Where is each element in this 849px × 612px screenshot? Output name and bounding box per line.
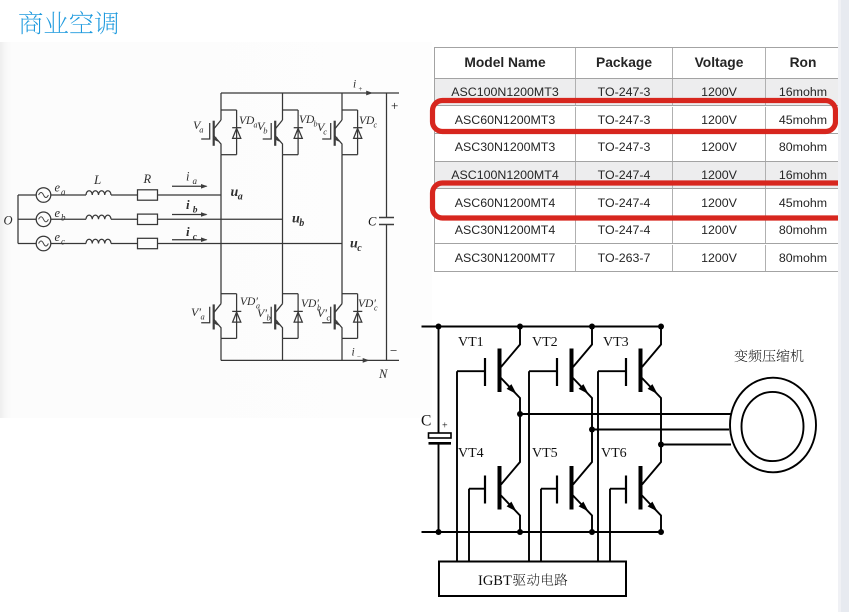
svg-text:+: + [442,421,448,432]
wire gate drive x=598 [597,371,599,561]
svg-text:c: c [374,121,378,130]
IGBT V'_b [263,304,283,339]
inductor L (phase b) [86,215,111,219]
left schematic background panel [0,42,432,418]
wire device box bottom [283,154,299,156]
svg-text:N: N [378,367,388,381]
node phase C [658,442,664,448]
wire cap leads [438,327,440,533]
junction dot top rail x=592 [589,324,595,330]
svg-text:c: c [374,304,378,313]
inductor L (phase c) [86,239,111,243]
wire gate drive x=610 [609,489,611,562]
motor compressor inner [742,392,804,461]
svg-text:VT6: VT6 [601,446,627,461]
transistor VT4 [469,414,520,532]
wire leg top connector [220,93,222,120]
resistor R (phase a) [138,190,158,200]
svg-text:c: c [357,243,362,254]
label 驱动电路 [513,573,567,586]
inductor L (phase a) [86,191,111,195]
IGBT drive box [439,562,626,597]
svg-text:b: b [193,206,198,216]
svg-text:i: i [352,347,355,359]
wire DC+ rail [221,92,399,94]
svg-text:i: i [186,197,190,212]
svg-text:VT3: VT3 [603,335,629,350]
spec table [434,47,840,272]
svg-text:i: i [186,224,190,239]
svg-text:c: c [61,237,65,247]
diode VD'_c [353,294,362,339]
wire phase line [18,218,283,220]
diode VD'_b [294,294,303,339]
wire leg to bottom rail [282,338,284,360]
AC source e_a [36,188,51,203]
IGBT V_a [201,120,221,155]
junction dot bottom rail x=520 [517,529,523,535]
svg-text:−: − [390,343,397,358]
IGBT V_b [263,120,283,155]
svg-text:c: c [193,233,198,243]
diode VD_b [294,110,303,155]
svg-text:VT5: VT5 [532,446,558,461]
svg-text:R: R [143,172,152,186]
resistor R (phase b) [138,214,158,224]
IGBT V'_c [322,304,342,339]
junction dot top rail x=520 [517,324,523,330]
junction dot bottom rail x=438.5 [436,529,442,535]
svg-text:i: i [186,170,190,184]
wire device box bottom [342,337,358,339]
wire bridge leg x=282.5 [282,155,284,304]
transistor VT3 [598,327,661,445]
svg-text:IGBT: IGBT [478,573,512,589]
wire leg to bottom rail [341,338,343,360]
IGBT V'_a [201,304,221,339]
svg-text:O: O [4,214,13,228]
wire phase line [18,194,221,196]
transistor VT2 [529,327,592,430]
transistor VT6 [610,445,661,533]
svg-text:VT2: VT2 [532,335,558,350]
wire device box top [221,109,237,111]
svg-text:C: C [421,413,431,430]
svg-text:VT1: VT1 [458,335,484,350]
diode VD'_a [232,294,241,339]
wire left bus [17,195,19,244]
capacitor C [379,218,394,225]
wire leg top connector [341,93,343,120]
wire device box bottom [221,154,237,156]
slide title 商业空调 [19,11,118,35]
svg-text:c: c [323,127,327,137]
wire device box top [221,293,237,295]
svg-text:e: e [55,230,61,244]
highlight box row ASC60N1200MT3 [433,101,836,132]
highlight box row ASC60N1200MT4 [433,183,848,218]
svg-text:C: C [368,215,377,229]
wire gate drive x=529 [528,371,530,561]
wire gate drive x=457 [456,371,458,561]
svg-text:VT4: VT4 [458,446,484,461]
wire DC bus bottom [422,531,662,533]
wire device box top [283,109,299,111]
wire phase line [18,243,342,245]
svg-text:+: + [358,85,363,93]
junction dot bottom rail x=661 [658,529,664,535]
right page-edge strip [838,0,849,612]
wire gate drive x=469 [468,489,470,562]
wire cap branch [386,93,388,360]
svg-text:a: a [199,125,203,135]
svg-text:−: − [357,353,362,361]
diode VD_a [232,110,241,155]
page edge strip [838,0,849,612]
wire leg to bottom rail [220,338,222,360]
capacitor C bottom plate [429,442,452,445]
wire device box top [342,109,358,111]
wire bridge leg x=342 [341,155,343,304]
wire device box bottom [283,337,299,339]
svg-text:e: e [55,206,61,220]
IGBT V_c [322,120,342,155]
junction dot top rail x=438.5 [436,324,442,330]
resistor R (phase c) [138,238,158,248]
current arrow i_b [172,214,207,216]
svg-text:i: i [353,79,356,91]
svg-text:b: b [299,218,304,229]
current arrow i_a [172,185,207,187]
junction dot top rail x=661 [658,324,664,330]
wire leg top connector [282,93,284,120]
label 变频压缩机 [735,349,804,362]
svg-text:b: b [61,213,66,223]
motor compressor outer [730,378,816,473]
svg-text:b: b [263,126,267,136]
AC source e_b [36,212,51,227]
wire DC bus top [422,326,662,328]
svg-text:a: a [238,192,243,203]
wire DC- rail [221,359,399,361]
wire device box bottom [342,154,358,156]
svg-text:b: b [267,313,271,323]
junction dot bottom rail x=592 [589,529,595,535]
wire gate drive x=541 [540,489,542,562]
wire bridge leg x=221 [220,155,222,304]
transistor VT1 [457,327,520,415]
node phase A [517,411,523,417]
svg-text:a: a [193,176,198,186]
svg-text:e: e [55,181,61,195]
svg-text:L: L [93,172,101,187]
node phase B [589,427,595,433]
svg-text:c: c [327,313,331,323]
current arrow i_c [172,239,207,241]
svg-text:a: a [201,312,205,322]
wire device box top [342,293,358,295]
capacitor C top plate [429,433,452,438]
AC source e_c [36,236,51,251]
svg-text:+: + [391,98,398,113]
transistor VT5 [541,430,592,533]
wire device box top [283,293,299,295]
diode VD_c [353,110,362,155]
wire device box bottom [221,337,237,339]
